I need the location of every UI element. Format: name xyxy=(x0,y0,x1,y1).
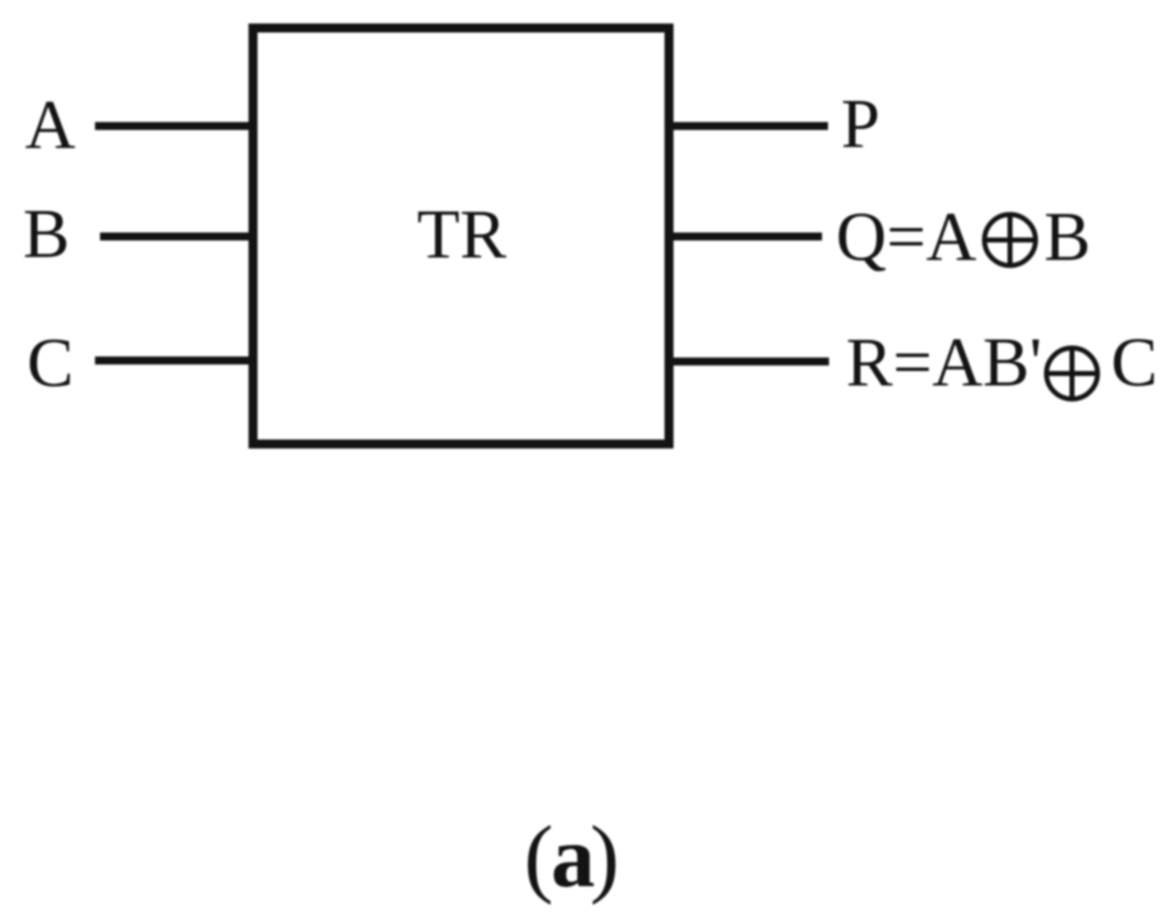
caption (a) xyxy=(524,809,619,906)
svg-text:TR: TR xyxy=(417,197,507,274)
wire input B xyxy=(100,233,253,241)
wire output R xyxy=(669,358,829,366)
svg-text:C: C xyxy=(1111,325,1158,402)
xor symbol in Q equation xyxy=(985,215,1036,266)
svg-text:B: B xyxy=(23,196,70,273)
svg-text:Q=A: Q=A xyxy=(836,199,977,276)
svg-text:R=AB': R=AB' xyxy=(846,325,1042,402)
svg-text:C: C xyxy=(27,325,74,402)
svg-text:a: a xyxy=(551,809,595,906)
wire input C xyxy=(95,357,253,365)
svg-text:): ) xyxy=(590,809,619,906)
xor symbol in R equation xyxy=(1047,348,1098,399)
svg-text:(: ( xyxy=(524,809,553,906)
svg-text:B: B xyxy=(1044,199,1091,276)
block U1 TR gate body xyxy=(253,28,669,444)
wire output Q xyxy=(669,233,822,241)
svg-text:P: P xyxy=(841,86,880,163)
wire input A xyxy=(95,122,253,130)
svg-text:A: A xyxy=(25,87,76,164)
wire output P xyxy=(669,122,828,130)
